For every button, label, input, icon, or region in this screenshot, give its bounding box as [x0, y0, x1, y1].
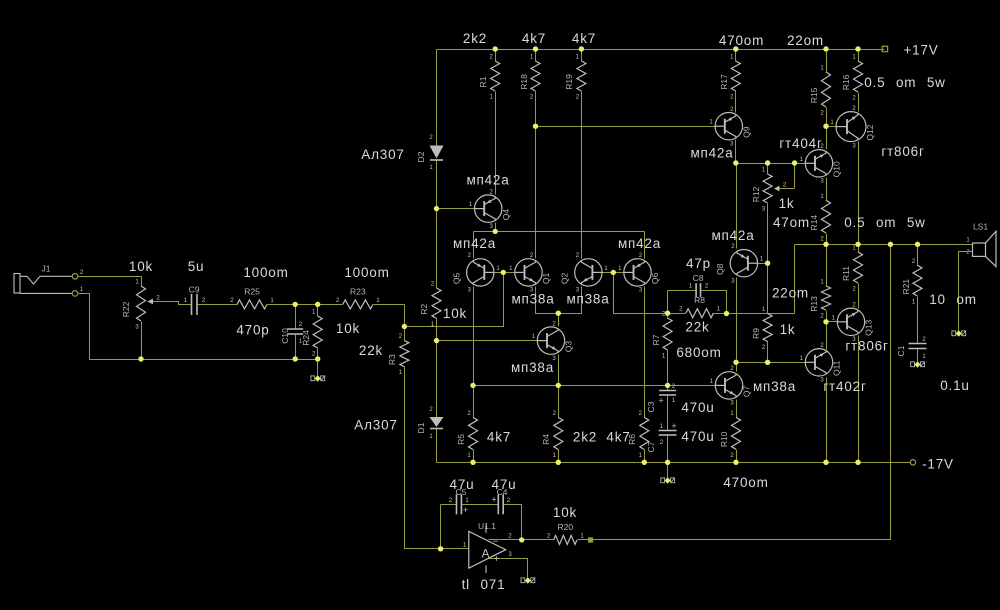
svg-text:Q12: Q12 [865, 124, 875, 140]
capacitor C8 [695, 283, 697, 297]
wire R24 top [317, 305, 319, 317]
junction [765, 360, 770, 365]
wire C3-C7 link [667, 396, 669, 431]
svg-text:LS1: LS1 [973, 222, 988, 232]
svg-text:-17V: -17V [922, 457, 954, 472]
junction [434, 206, 439, 211]
svg-text:мп42а: мп42а [466, 173, 509, 188]
capacitor C10 [287, 328, 303, 330]
wire Q6 collector [644, 232, 646, 259]
svg-text:R19: R19 [564, 74, 574, 90]
junction [823, 319, 828, 324]
svg-text:10k: 10k [336, 321, 360, 336]
junction [733, 160, 738, 165]
wire R12 wiper riser [794, 164, 796, 189]
svg-text:C8: C8 [693, 273, 704, 283]
svg-text:Q9: Q9 [742, 126, 752, 138]
resistor R23 [343, 300, 373, 309]
junction [556, 383, 561, 388]
wire C5-C4 link [462, 504, 499, 506]
transistor Q8 [730, 250, 757, 277]
svg-text:Q2: Q2 [560, 272, 570, 284]
junction [434, 338, 439, 343]
capacitor C5 [456, 494, 458, 514]
wire Q8 base [758, 263, 768, 265]
resistor R3 [400, 341, 409, 367]
wire Q12 collector to output rail [858, 142, 860, 245]
svg-text:R1: R1 [478, 76, 488, 87]
transistor Q11 [805, 349, 832, 376]
transistor Q3 [537, 327, 564, 354]
junction [792, 160, 797, 165]
ground [661, 478, 665, 483]
svg-text:4k7: 4k7 [606, 430, 630, 445]
wire Q2-Q6 base link [603, 272, 624, 274]
wire R4 bottom [558, 450, 560, 463]
wire R1 bottom to Q4 collector [495, 92, 497, 195]
svg-text:R8: R8 [694, 295, 705, 305]
junction [888, 242, 893, 247]
resistor R2 [432, 288, 441, 318]
svg-text:10k: 10k [553, 505, 577, 520]
resistor R1 [491, 61, 500, 91]
wire node B to D1 [436, 341, 438, 418]
svg-text:гт402г: гт402г [823, 379, 866, 394]
wire Q5 collector [473, 232, 475, 259]
wire node362 row to Q11 base [737, 362, 806, 364]
svg-text:Q4: Q4 [501, 209, 511, 221]
svg-text:10k: 10k [129, 259, 153, 274]
wire R19 top [581, 50, 583, 62]
resistor R19 [577, 61, 586, 91]
speaker LS1 [973, 243, 986, 256]
junction [733, 360, 738, 365]
terminal +17V [882, 46, 887, 51]
wire riser to output rail [794, 245, 796, 314]
svg-text:Ал307: Ал307 [361, 147, 404, 162]
terminal -17V [910, 460, 915, 465]
junction [855, 242, 860, 247]
svg-text:22om: 22om [787, 33, 824, 48]
svg-text:0.5 om 5w: 0.5 om 5w [864, 75, 945, 90]
svg-text:R3: R3 [387, 354, 397, 365]
svg-text:Q5: Q5 [452, 272, 462, 284]
svg-text:мп38а: мп38а [511, 292, 554, 307]
svg-text:R24: R24 [301, 330, 311, 346]
wire Q6 emitter down to R6 [644, 287, 646, 418]
svg-text:Q11: Q11 [832, 360, 842, 376]
svg-text:Q3: Q3 [564, 341, 574, 353]
wire C8 right [701, 291, 727, 314]
svg-text:J1: J1 [42, 264, 51, 274]
svg-text:U1.1: U1.1 [478, 521, 496, 531]
svg-text:R23: R23 [350, 286, 366, 296]
ground [911, 362, 915, 367]
ground [311, 376, 315, 381]
wire bus ground stub [317, 360, 319, 376]
wire speaker pin2 to ground [959, 252, 973, 331]
svg-text:R17: R17 [719, 74, 729, 90]
svg-text:C3: C3 [646, 401, 656, 412]
svg-text:R13: R13 [809, 296, 819, 312]
resistor R4 [554, 417, 563, 449]
wire R13 bottom to node [826, 311, 828, 322]
wire C4 right loop [504, 505, 522, 540]
wire R24 bottom [317, 349, 319, 360]
svg-text:C9: C9 [189, 285, 200, 295]
svg-text:10k: 10k [443, 306, 467, 321]
resistor R17 [731, 61, 740, 91]
wire R9 bottom to Q11 base node [767, 342, 769, 363]
svg-text:4k7: 4k7 [522, 31, 546, 46]
svg-text:Ал307: Ал307 [354, 418, 397, 433]
svg-text:мп38а: мп38а [511, 360, 554, 375]
junction [519, 537, 524, 542]
wire Q11 collector from node [826, 322, 828, 350]
wire Q3 collector [558, 314, 560, 327]
junction [765, 160, 770, 165]
wire R8 right [714, 313, 727, 315]
junction [315, 302, 320, 307]
svg-text:+17V: +17V [903, 43, 938, 58]
svg-text:R16: R16 [841, 74, 851, 90]
wire Q2/Q6 base node down [614, 273, 668, 314]
wire jack pin2 to pot [79, 277, 142, 287]
junction [724, 311, 729, 316]
wire D1 to -17V rail [436, 429, 438, 463]
svg-text:Q13: Q13 [864, 320, 874, 336]
svg-text:4k7: 4k7 [487, 430, 511, 445]
wire R5 bottom [473, 450, 475, 463]
wire R13 top from output rail [826, 245, 828, 287]
wire C1 to ground [917, 349, 919, 362]
wire Q8 base node down to R9 [767, 264, 769, 314]
svg-text:Q6: Q6 [650, 272, 660, 284]
junction [855, 46, 860, 51]
svg-text:47om: 47om [773, 215, 810, 230]
wire R12 bottom to Q8 base node [767, 204, 769, 264]
svg-text:R14: R14 [809, 215, 819, 231]
transistor Q4 [475, 195, 502, 222]
terminal feedback port [588, 537, 593, 542]
transistor Q12 [836, 112, 866, 142]
junction [501, 270, 506, 275]
diode D2 [430, 146, 444, 159]
junction [823, 124, 828, 129]
wire R11 top [858, 245, 860, 253]
wire R17 bottom to Q9 collector [735, 92, 737, 113]
wire C8 left riser [667, 291, 669, 314]
wire R6 bottom [644, 450, 646, 463]
svg-text:+: + [671, 421, 676, 431]
svg-text:0.5 om 5w: 0.5 om 5w [844, 215, 925, 230]
transistor Q1 [515, 259, 542, 286]
svg-text:Q10: Q10 [832, 161, 842, 177]
wire R8 left [668, 313, 686, 315]
svg-text:мп38а: мп38а [753, 379, 796, 394]
resistor R10 [732, 417, 741, 449]
wire R12 top branch [767, 164, 769, 175]
svg-text:мп42а: мп42а [453, 236, 496, 251]
wire R23 to corner [374, 304, 405, 306]
wire R7 top [667, 314, 669, 319]
wire R4 top [558, 386, 560, 418]
svg-text:D2: D2 [416, 151, 426, 162]
svg-text:+: + [658, 396, 663, 406]
junction [315, 356, 320, 361]
junction [915, 242, 920, 247]
svg-text:A: A [481, 547, 489, 561]
svg-text:47u: 47u [450, 477, 475, 492]
junction [611, 270, 616, 275]
svg-text:C7: C7 [646, 441, 656, 452]
svg-text:R12: R12 [751, 186, 761, 202]
svg-text:R22: R22 [121, 301, 131, 317]
resistor R9 [763, 314, 772, 342]
junction [533, 46, 538, 51]
resistor R11 [854, 252, 863, 283]
wire corner down to node A [404, 305, 406, 341]
wire R20 right to terminal [578, 539, 594, 541]
wire op-amp pin2 to R20 [489, 539, 554, 541]
svg-text:2k2: 2k2 [573, 430, 597, 445]
junction [642, 460, 647, 465]
wire Q7 emitter to R10 [736, 400, 738, 418]
wire C10 bottom [295, 335, 297, 360]
wire tail of Q5 down to R5 [473, 287, 475, 418]
wire jack pin1 down [79, 294, 90, 360]
diode D1 [430, 417, 444, 427]
junction [579, 46, 584, 51]
junction [402, 324, 407, 329]
junction [493, 46, 498, 51]
svg-text:4k7: 4k7 [572, 31, 596, 46]
ground [521, 578, 525, 583]
junction [556, 460, 561, 465]
wire Q7 collector [736, 363, 738, 372]
capacitor C1 [909, 343, 927, 345]
wire Q11 emitter to -17V rail [826, 378, 828, 463]
svg-text:470om: 470om [719, 33, 764, 48]
wire R21 top [917, 245, 919, 266]
wire node to Q10 collector [826, 127, 828, 150]
wire ground bus [90, 359, 318, 361]
resistor R16 [854, 61, 863, 92]
svg-text:R4: R4 [541, 434, 551, 445]
potentiometer R12 [763, 174, 772, 203]
resistor R13 [822, 286, 831, 310]
capacitor C4 [497, 494, 499, 514]
junction [823, 460, 828, 465]
resistor R7 [663, 318, 672, 350]
svg-text:+: + [494, 554, 500, 565]
wire R1 top [495, 50, 497, 62]
wire R25 to node [268, 304, 343, 306]
svg-text:22om: 22om [772, 286, 809, 301]
wire upper cluster rail [474, 231, 645, 233]
svg-text:tl 071: tl 071 [462, 577, 506, 592]
wire Q8 collector from node163 [736, 164, 738, 249]
connector J1 jack body [14, 274, 20, 294]
svg-text:R20: R20 [558, 522, 574, 532]
junction [438, 546, 443, 551]
capacitor C7 [659, 430, 677, 432]
svg-text:680om: 680om [676, 345, 721, 360]
wire R14 bottom to output rail [826, 234, 828, 245]
junction [138, 356, 143, 361]
svg-text:C1: C1 [896, 345, 906, 356]
wire D2 column from +17V rail [436, 50, 438, 146]
svg-text:470u: 470u [681, 429, 714, 444]
svg-text:R18: R18 [519, 74, 529, 90]
wire feedback riser [594, 245, 891, 540]
wire D2 cathode to node [436, 161, 438, 209]
junction [765, 261, 770, 266]
wire pot bottom to bus [141, 322, 143, 360]
transistor Q9 [715, 113, 742, 140]
op-amp U1.1 [469, 531, 506, 568]
svg-text:мп42а: мп42а [711, 228, 754, 243]
svg-text:2k2: 2k2 [463, 31, 487, 46]
svg-text:47u: 47u [492, 477, 517, 492]
wire R21 to C1 [917, 297, 919, 344]
resistor R25 [237, 300, 267, 309]
wire Q5-Q1 base link [495, 272, 515, 274]
wire R16 bottom to Q12 emitter [858, 93, 860, 112]
wire Q9 emitter to node [735, 140, 737, 164]
wire output rail [795, 244, 973, 246]
resistor R6 [640, 417, 649, 449]
svg-text:10 om: 10 om [929, 292, 977, 307]
svg-text:100om: 100om [243, 265, 288, 280]
junction [665, 311, 670, 316]
wire Q13 base [827, 321, 838, 323]
wire Q8 emitter to node362 [736, 278, 738, 363]
svg-text:R25: R25 [244, 286, 260, 296]
junction [533, 124, 538, 129]
ground [952, 331, 956, 336]
resistor R14 [822, 200, 831, 233]
wire C8 left [668, 290, 697, 292]
resistor R15 [822, 72, 831, 107]
svg-text:R15: R15 [809, 87, 819, 103]
junction [493, 229, 498, 234]
svg-text:47p: 47p [686, 256, 711, 271]
junction [733, 46, 738, 51]
wire R19 bottom to Q2 collector [581, 92, 583, 259]
resistor R8 [686, 309, 714, 318]
wire R11 bottom to Q13 emitter [858, 284, 860, 309]
wire Q1-Q2 emitters link [536, 287, 582, 314]
svg-text:C10: C10 [280, 328, 290, 344]
transistor Q10 [805, 150, 832, 177]
wire Q12 base line [827, 126, 837, 128]
svg-text:гт404г: гт404г [779, 136, 822, 151]
wire R18 bottom through Q9-base node to Q1 collector [535, 92, 537, 259]
wire R16 top [858, 50, 860, 62]
svg-text:22k: 22k [359, 343, 383, 358]
wire C5 left [441, 504, 457, 506]
junction [823, 46, 828, 51]
svg-text:R2: R2 [419, 303, 429, 314]
svg-text:R7: R7 [651, 334, 661, 345]
wire R10 bottom [736, 450, 738, 463]
svg-text:R11: R11 [841, 266, 851, 281]
wire Q4 emitter to tail node [495, 223, 497, 232]
wire lower row y385 [474, 385, 716, 387]
svg-text:R9: R9 [751, 328, 761, 339]
svg-text:100om: 100om [344, 265, 389, 280]
wire C5 branch riser [440, 505, 442, 549]
svg-text:Q1: Q1 [541, 272, 551, 284]
wire C10 top [295, 305, 297, 330]
wire Q3 emitter to node [558, 355, 560, 386]
wire VAS node row y163 [736, 163, 806, 165]
junction [470, 460, 475, 465]
wire R3 bottom to op-amp input [405, 367, 469, 549]
junction [665, 383, 670, 388]
svg-text:5u: 5u [188, 259, 205, 274]
svg-text:мп42а: мп42а [618, 236, 661, 251]
svg-text:1k: 1k [780, 322, 796, 337]
junction [823, 242, 828, 247]
wire node A line to Q5/Q1 bases [405, 273, 504, 327]
svg-text:мп38а: мп38а [566, 292, 609, 307]
wire Q9 base line [536, 126, 716, 128]
svg-text:мп42а: мп42а [690, 146, 733, 161]
svg-text:Q7: Q7 [742, 385, 752, 397]
svg-text:470p: 470p [236, 323, 269, 338]
svg-text:470u: 470u [681, 400, 714, 415]
wire -17V rail [437, 462, 911, 464]
resistor R21 [913, 265, 922, 296]
wire Q4 base [437, 208, 475, 210]
svg-text:−: − [493, 537, 499, 548]
wire R15 bottom to Q12-base node [826, 108, 828, 127]
wire ground stub below C7 [667, 463, 669, 478]
svg-text:Q8: Q8 [715, 263, 725, 275]
resistor R5 [469, 417, 478, 449]
transistor Q13 [837, 308, 864, 335]
svg-text:гт806г: гт806г [845, 339, 888, 354]
wire C7 bottom to -17V rail [667, 436, 669, 463]
junction [665, 460, 670, 465]
wire op-amp pin3 [489, 559, 528, 578]
resistor R20 [554, 535, 577, 544]
wire input line from wiper [148, 302, 192, 305]
wire R12 wiper [777, 188, 795, 190]
svg-text:D1: D1 [416, 422, 426, 433]
svg-text:470om: 470om [723, 475, 768, 490]
svg-text:гт806г: гт806г [881, 144, 924, 159]
wire R18 top [535, 50, 537, 62]
wire R17 top [735, 50, 737, 62]
resistor R18 [531, 61, 540, 91]
junction [556, 311, 561, 316]
junction [733, 460, 738, 465]
svg-text:22k: 22k [685, 320, 709, 335]
junction [293, 356, 298, 361]
capacitor C9 [191, 294, 193, 315]
resistor R24 [313, 316, 322, 348]
wire R15 top [826, 50, 828, 73]
svg-text:+: + [463, 505, 468, 515]
svg-text:1k: 1k [779, 196, 795, 211]
potentiometer R22 [137, 286, 146, 321]
wire Q13 collector to -17V rail [858, 336, 860, 463]
wire R14 top from Q10 emitter [826, 178, 828, 201]
junction [470, 383, 475, 388]
